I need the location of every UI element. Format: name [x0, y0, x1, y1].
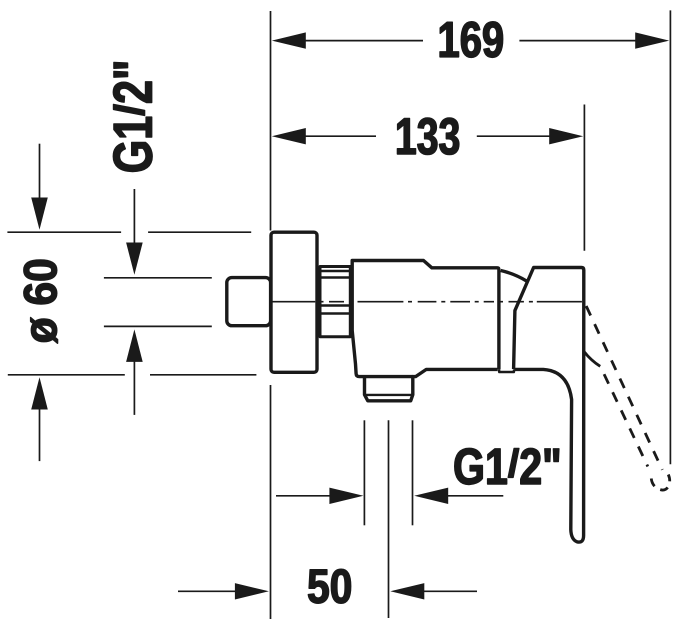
wire extension lines dia60 bottom: [8, 374, 257, 376]
wire lever pivot arc solid: [584, 352, 600, 367]
wire extension lines G12 pipe top: [104, 277, 212, 279]
wire dashed lever tip: [651, 475, 670, 491]
node extension line 133 right: [583, 105, 585, 251]
node label 50: [308, 569, 350, 603]
wire outlet extension line right: [412, 420, 414, 525]
wire dimension line 169: [305, 40, 636, 42]
node arrowhead 169 left: [272, 32, 306, 48]
wire extension lines dia60 top: [7, 231, 251, 233]
node label 133: [397, 118, 459, 155]
wire outlet G12 dimension right shaft: [448, 495, 504, 497]
wire dashed lever open position outer edge: [586, 306, 662, 470]
wire dimension line 133: [305, 135, 550, 137]
node arrowhead 133 right: [549, 128, 583, 144]
wire wall reference line upper: [270, 11, 272, 231]
wire outlet inner chamfer line: [365, 394, 413, 396]
node outlet G12 arrowhead left: [329, 488, 363, 504]
wire dashed lever open position inner edge: [603, 372, 648, 467]
node 50 arrowhead left: [235, 583, 269, 599]
node dia60 arrowhead down: [31, 198, 48, 230]
node label 169: [440, 22, 503, 58]
wire outlet top edge: [365, 375, 413, 378]
node label G12 outlet: [455, 448, 559, 484]
wire extension lines G12 pipe bottom: [104, 325, 212, 327]
node dia60 arrowhead up: [31, 377, 48, 409]
wire wall reference line lower: [270, 385, 272, 619]
wire body underside notch: [499, 369, 514, 372]
node extension line 169 right: [669, 10, 671, 464]
wire body bottom left edge: [352, 331, 364, 377]
node 50 arrowhead right: [390, 583, 424, 599]
capacitor inlet pipe G12: [227, 278, 271, 326]
wire hex nut facet lines: [319, 271, 352, 314]
diode shower outlet G12: [365, 369, 498, 400]
node arrowhead 169 right: [635, 32, 669, 48]
wire G12 arrow down shaft: [133, 189, 135, 244]
node outlet G12 arrowhead right: [414, 488, 448, 504]
resistor wall flange escutcheon: [271, 232, 317, 372]
wire outlet extension line left: [363, 420, 365, 525]
wire outlet center extension line: [388, 420, 390, 618]
wire outlet G12 dimension left shaft: [276, 495, 331, 497]
wire dia60 arrow up shaft: [39, 409, 41, 462]
wire G12 arrow up shaft: [133, 362, 135, 415]
node G12 arrowhead up: [126, 329, 143, 362]
wire dia60 arrow down shaft: [39, 144, 41, 199]
node arrowhead 133 left: [272, 128, 306, 144]
node G12 arrowhead down: [126, 243, 143, 275]
wire center axis dash-dot line: [272, 301, 582, 303]
wire 50 dimension right shaft: [424, 590, 477, 592]
op-amp main mixer body outline: [352, 261, 499, 370]
node label G12 inlet rotated: [113, 63, 152, 172]
wire cartridge dome curve: [501, 271, 527, 281]
transistor hex nut body: [320, 267, 350, 337]
node label dia 60 rotated: [24, 260, 58, 343]
wire 50 dimension left shaft: [178, 590, 236, 592]
diode handle neck and lever outline: [514, 268, 584, 543]
